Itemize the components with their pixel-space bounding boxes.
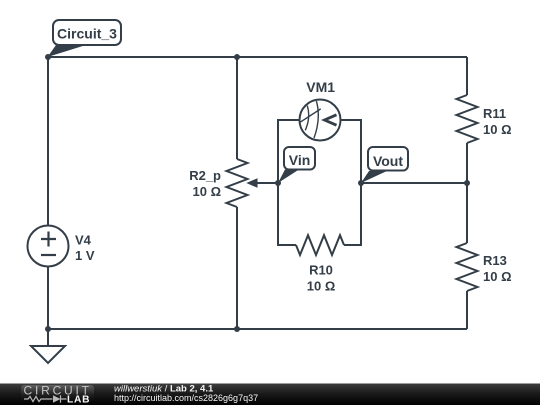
junction dot right rail: [464, 180, 470, 186]
wire top rail: [48, 56, 467, 58]
wire right rail upper: [466, 57, 468, 95]
wire mid vertical lower: [236, 207, 238, 329]
junction dot top-mid: [234, 54, 240, 60]
wire left rail lower: [47, 267, 49, 330]
resistor R11: [457, 95, 478, 143]
wire right rail lower: [466, 291, 468, 329]
footer credit text: [114, 384, 258, 403]
svg-text:10 Ω: 10 Ω: [483, 122, 512, 137]
svg-text:R2_p: R2_p: [189, 168, 221, 183]
svg-text:R10: R10: [309, 263, 333, 278]
wire Vin branch down to R10: [278, 183, 296, 245]
svg-text:10 Ω: 10 Ω: [193, 184, 222, 199]
resistor R13: [457, 243, 478, 291]
wire voltmeter right down to Vout: [341, 120, 362, 183]
resistor R10: [296, 235, 344, 255]
junction dot bottom-mid: [234, 326, 240, 332]
svg-text:10 Ω: 10 Ω: [483, 269, 512, 284]
svg-text:LAB: LAB: [67, 394, 90, 405]
node label Vout: [361, 147, 408, 183]
junction dot top-left: [45, 54, 51, 60]
resistor R2_p (potentiometer body): [227, 159, 248, 207]
svg-text:Vin: Vin: [289, 152, 311, 168]
svg-text:http://circuitlab.com/cs2826g6: http://circuitlab.com/cs2826g6g7q37: [114, 393, 258, 403]
wire Vin branch up to voltmeter: [278, 120, 300, 183]
node label Circuit_3: [48, 20, 122, 57]
svg-text:Vout: Vout: [373, 153, 403, 169]
wire right rail middle: [466, 143, 468, 243]
svg-text:V4: V4: [75, 233, 92, 248]
junction dot Vin node: [275, 180, 281, 186]
wire R10 right up to Vout: [344, 183, 361, 245]
svg-text:VM1: VM1: [306, 79, 335, 95]
wire mid vertical upper: [236, 57, 238, 159]
node label Vin: [278, 147, 315, 183]
svg-text:Circuit_3: Circuit_3: [57, 26, 117, 42]
svg-text:R13: R13: [483, 253, 507, 268]
wiper arrowhead: [246, 178, 257, 188]
ground: [47, 329, 49, 346]
svg-text:10 Ω: 10 Ω: [307, 279, 336, 294]
svg-text:1 V: 1 V: [75, 248, 95, 263]
junction dot bottom-left: [45, 326, 51, 332]
voltmeter VM1: [300, 100, 341, 141]
wire left rail upper: [47, 57, 49, 226]
potentiometer wiper wire: [256, 182, 278, 184]
wire Vout to right rail: [361, 182, 467, 184]
wire bottom rail: [48, 328, 467, 330]
svg-text:R11: R11: [483, 106, 506, 121]
junction dot Vout node: [358, 180, 364, 186]
CircuitLab logo: [21, 384, 94, 405]
voltage source V4: [28, 226, 69, 267]
